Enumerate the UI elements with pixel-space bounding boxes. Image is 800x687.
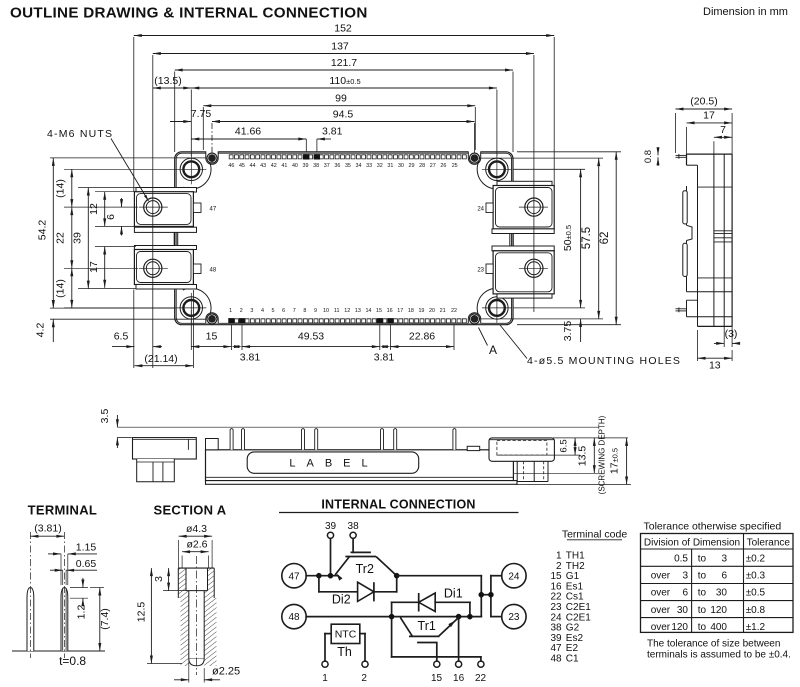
svg-text:12.5: 12.5: [136, 602, 148, 623]
svg-text:30: 30: [716, 588, 728, 599]
svg-text:22.86: 22.86: [409, 331, 435, 343]
terminal detail: dim 1.2: [70, 587, 88, 589]
front elevation: right terminal profile: [516, 461, 518, 481]
top view: dimension 17: [104, 247, 106, 288]
terminal detail: pin 2: [61, 588, 68, 651]
wire: 38 gate lead: [352, 538, 354, 552]
thermistor NTC box: [331, 624, 360, 643]
svg-text:6: 6: [682, 588, 688, 599]
svg-text:6: 6: [105, 214, 117, 220]
svg-text:48: 48: [550, 654, 562, 665]
svg-text:(SCREWING DEPTH): (SCREWING DEPTH): [598, 415, 607, 494]
schematic: terminal 23: [502, 604, 526, 628]
svg-text:Tr2: Tr2: [356, 562, 374, 576]
wire: 48 rail: [306, 616, 481, 618]
terminal detail: dim 0.65: [62, 570, 64, 585]
top view: extension lines (vertical): [133, 37, 135, 192]
top view: serrated pin combs: [229, 155, 466, 159]
terminal detail: base line: [12, 650, 105, 652]
svg-text:to: to: [698, 622, 707, 633]
section A: dim 12.5: [147, 663, 182, 665]
svg-text:Tolerance otherwise specified: Tolerance otherwise specified: [644, 521, 782, 533]
svg-text:LABEL: LABEL: [289, 457, 378, 469]
svg-text:(7.4): (7.4): [99, 608, 111, 630]
svg-text:to: to: [698, 588, 707, 599]
svg-text:57.5: 57.5: [581, 227, 593, 249]
front elevation: corner bumps: [206, 439, 219, 450]
node: junction 39/47: [328, 573, 333, 578]
svg-text:0.8: 0.8: [643, 150, 654, 163]
front elevation: body: [206, 450, 514, 481]
wire: collector rail to terminals 24/23: [397, 575, 482, 577]
top view: bottom dimension 49.53: [242, 346, 380, 348]
svg-text:7.75: 7.75: [191, 108, 212, 120]
svg-text:over: over: [651, 588, 671, 599]
top view: dimension 12: [104, 192, 106, 227]
top view: bottom dimension 3.81 (right): [380, 345, 388, 348]
schematic: terminal 39: [327, 532, 333, 538]
svg-text:2: 2: [361, 673, 367, 684]
svg-text:0.65: 0.65: [76, 558, 97, 570]
svg-text:±0.8: ±0.8: [746, 605, 766, 616]
top view: highlighted pins 39,38 (top) and 1,2,15,16 (bottom): [303, 154, 309, 159]
top view: right extension lines (horizontal): [513, 168, 585, 170]
svg-text:15: 15: [206, 331, 218, 343]
svg-text:30: 30: [677, 605, 689, 616]
svg-text:3.81: 3.81: [374, 352, 395, 364]
svg-text:39: 39: [325, 521, 337, 532]
svg-text:6: 6: [721, 571, 727, 582]
svg-text:41.66: 41.66: [235, 126, 261, 138]
wire: 47 to emitter node: [306, 575, 338, 577]
terminal detail: dim (7.4): [90, 587, 104, 589]
svg-text:Th: Th: [337, 645, 352, 659]
schematic: terminal 22: [478, 661, 484, 667]
svg-text:±0.5: ±0.5: [746, 588, 766, 599]
svg-text:ø2.25: ø2.25: [212, 666, 240, 678]
transistor Tr1 (IGBT): [409, 635, 439, 637]
top view: bottom dimension 6.5: [112, 346, 134, 348]
svg-text:400: 400: [710, 622, 727, 633]
svg-text:to: to: [698, 554, 707, 565]
svg-text:(21.14): (21.14): [144, 353, 177, 365]
top view: corner pin holes: [207, 153, 217, 163]
svg-text:23: 23: [477, 268, 484, 274]
svg-text:12: 12: [88, 203, 100, 215]
svg-text:7: 7: [720, 124, 726, 136]
top view: right terminal 23: [492, 229, 554, 234]
svg-text:94.5: 94.5: [333, 109, 354, 121]
terminal detail: pin 1: [27, 588, 34, 651]
top view: dimension 121.7: [175, 69, 513, 71]
svg-text:3.81: 3.81: [240, 352, 261, 364]
wire: 39 lead: [330, 538, 332, 575]
svg-text:over: over: [651, 622, 671, 633]
svg-text:Terminal code: Terminal code: [562, 529, 628, 541]
svg-text:Tr1: Tr1: [418, 619, 436, 633]
svg-text:24: 24: [477, 207, 484, 213]
top view: bottom dimension 3.81 (left): [231, 345, 239, 348]
schematic: terminal 1: [322, 661, 328, 667]
svg-text:17: 17: [703, 110, 715, 122]
svg-text:16: 16: [453, 673, 465, 684]
svg-text:48: 48: [288, 612, 300, 623]
node: Tr2 collector junction: [394, 573, 399, 578]
top view: corner pin hole notches: [206, 151, 219, 160]
svg-text:(13.5): (13.5): [154, 75, 181, 87]
svg-text:(3): (3): [725, 328, 738, 340]
front elevation: left terminal profile: [133, 438, 197, 459]
top view: dimension 99: [203, 105, 475, 107]
top view: bottom dimension (21.14): [134, 365, 193, 367]
svg-text:A: A: [489, 343, 497, 357]
svg-text:4-ø5.5 MOUNTING HOLES: 4-ø5.5 MOUNTING HOLES: [527, 355, 681, 367]
svg-text:3.5: 3.5: [99, 409, 111, 424]
node: junction at Di2 left: [316, 573, 321, 578]
node: output junctions: [479, 592, 484, 597]
svg-text:152: 152: [334, 23, 352, 35]
top view: left terminal 48: [134, 227, 196, 232]
svg-text:120: 120: [710, 605, 727, 616]
svg-text:±0.2: ±0.2: [746, 554, 766, 565]
svg-text:24: 24: [508, 571, 520, 582]
side view: top pin: [676, 154, 687, 156]
top view: dimension 4.2: [52, 319, 54, 342]
side view: body: [687, 153, 733, 155]
terminal detail: dim 1.15: [60, 554, 62, 585]
top view: dimension 3.75: [580, 319, 582, 342]
wire: pin 16 drop: [458, 617, 460, 662]
svg-text:ø2.6: ø2.6: [186, 538, 207, 550]
top view: dimension 152: [134, 35, 554, 37]
svg-text:47: 47: [288, 571, 300, 582]
svg-text:over: over: [651, 605, 671, 616]
svg-text:Di1: Di1: [444, 587, 463, 601]
svg-text:22: 22: [55, 232, 67, 244]
side view: dimension 13: [697, 330, 699, 361]
svg-text:3.81: 3.81: [322, 126, 343, 138]
svg-text:23: 23: [508, 612, 520, 623]
schematic: terminal 38: [350, 532, 356, 538]
svg-text:±1.2: ±1.2: [746, 622, 766, 633]
svg-text:6.5: 6.5: [559, 439, 570, 452]
top view: dimension 6: [121, 198, 123, 207]
svg-text:SECTION A: SECTION A: [153, 503, 226, 518]
transistor Tr2 (IGBT): [351, 551, 371, 553]
side view: dimension 7: [713, 141, 715, 154]
svg-text:to: to: [698, 571, 707, 582]
svg-text:Division of Dimension: Division of Dimension: [644, 538, 740, 549]
section A: dim dia 4.3: [178, 540, 180, 568]
svg-text:±0.3: ±0.3: [746, 571, 766, 582]
svg-text:47: 47: [210, 207, 217, 213]
top view: dimensions (14)/22/(14): [71, 169, 73, 308]
diode Di1: [391, 602, 393, 657]
svg-text:(3.81): (3.81): [34, 523, 61, 535]
top view: bottom dimension 15: [190, 310, 192, 350]
top view: dimension 39: [87, 188, 89, 289]
svg-text:INTERNAL CONNECTION: INTERNAL CONNECTION: [321, 498, 475, 512]
wire: pin 22 drop: [480, 657, 482, 661]
svg-text:NTC: NTC: [335, 628, 357, 640]
terminal detail: dim (3.81): [30, 535, 64, 537]
svg-text:3: 3: [721, 554, 727, 565]
svg-text:Tolerance: Tolerance: [747, 538, 791, 549]
side view: dimension (20.5): [675, 113, 677, 153]
svg-text:(20.5): (20.5): [690, 96, 717, 108]
top view: dimension 41.66 and 3.81 (top): [191, 138, 306, 140]
svg-text:TERMINAL: TERMINAL: [28, 503, 98, 518]
schematic: terminal 16: [456, 661, 462, 667]
svg-text:terminals is assumed to be ±0.: terminals is assumed to be ±0.4.: [647, 650, 791, 661]
svg-text:13: 13: [709, 360, 721, 372]
svg-text:48: 48: [210, 268, 217, 274]
svg-text:1.2: 1.2: [76, 605, 88, 620]
top view: dimension 57.5: [598, 158, 600, 319]
svg-text:0.5: 0.5: [674, 554, 688, 565]
top view: right terminal 24: [497, 181, 552, 185]
svg-text:50±0.5: 50±0.5: [562, 225, 574, 251]
schematic: terminal 47: [282, 564, 306, 588]
top view: dimension 110 +/-0.5 and (13.5): [191, 87, 497, 89]
svg-text:The tolerance of size between: The tolerance of size between: [647, 639, 780, 650]
side view: dimension 0.8: [657, 147, 659, 155]
node: rail junctions: [389, 614, 394, 619]
svg-text:54.2: 54.2: [37, 220, 49, 241]
svg-text:(14): (14): [55, 279, 67, 298]
schematic: terminal 24: [502, 564, 526, 588]
top view: dimension 137: [153, 53, 534, 55]
wire: Tr1 gate lead to pin 15: [436, 643, 438, 657]
svg-text:13.5: 13.5: [577, 446, 589, 467]
diode Di2: [318, 576, 320, 592]
side view: left case profile with terminal strips: [686, 186, 688, 225]
svg-text:4.2: 4.2: [35, 323, 47, 338]
front elevation: pin-top reference line and 3.5 dim: [117, 426, 599, 428]
svg-text:110±0.5: 110±0.5: [329, 75, 360, 87]
svg-text:120: 120: [671, 622, 688, 633]
section A: dim dia 2.6: [181, 556, 183, 569]
schematic: terminal 2: [362, 661, 368, 667]
schematic: terminal 15: [434, 661, 440, 667]
svg-text:39: 39: [72, 232, 84, 244]
svg-text:1.15: 1.15: [76, 542, 97, 554]
top view: dimension 50 +/-0.5: [580, 169, 582, 308]
svg-text:Dimension in mm: Dimension in mm: [703, 6, 788, 18]
svg-text:17: 17: [88, 261, 100, 273]
front elevation: right dimensions 6.5 / 13.5 / 17: [553, 437, 628, 439]
top view: bottom dimension 22.86: [390, 346, 454, 348]
svg-text:C1: C1: [566, 654, 579, 665]
svg-text:3: 3: [153, 576, 165, 582]
wire: auxiliary bottom bus: [392, 656, 481, 658]
top view: dimension 94.5 and 7.75: [212, 121, 475, 123]
svg-text:137: 137: [331, 41, 349, 53]
svg-text:6.5: 6.5: [114, 331, 129, 343]
svg-text:4-M6 NUTS: 4-M6 NUTS: [47, 128, 113, 140]
front elevation: LABEL plate: [247, 452, 419, 473]
wire: NTC leads: [325, 633, 331, 635]
svg-text:3: 3: [682, 571, 688, 582]
svg-text:22: 22: [475, 673, 487, 684]
top view: module outline: [175, 152, 513, 325]
svg-text:49.53: 49.53: [298, 331, 324, 343]
schematic: terminal 48: [282, 604, 306, 628]
section A: dim dia 2.25: [188, 660, 190, 683]
svg-text:99: 99: [335, 93, 347, 105]
top view: left reference planes: [50, 157, 206, 159]
svg-text:OUTLINE DRAWING & INTERNAL: OUTLINE DRAWING & INTERNAL CONNECTION: [10, 5, 368, 22]
side view: dimension 17: [686, 127, 688, 154]
svg-text:Di2: Di2: [332, 593, 351, 607]
svg-text:17±0.5: 17±0.5: [609, 448, 621, 474]
top view: mounting holes: [180, 158, 202, 180]
svg-text:(14): (14): [55, 179, 67, 198]
svg-text:over: over: [651, 571, 671, 582]
top view: left terminal 47: [136, 188, 197, 193]
side view: dimension (3): [723, 326, 725, 347]
svg-text:38: 38: [348, 521, 360, 532]
svg-text:3.75: 3.75: [562, 321, 574, 342]
svg-text:121.7: 121.7: [331, 57, 357, 69]
top view: dimension 54.2: [52, 158, 54, 308]
top view: corner bosses: [183, 161, 211, 189]
front elevation: pins: [230, 429, 233, 450]
svg-text:to: to: [698, 605, 707, 616]
svg-text:15: 15: [431, 673, 443, 684]
svg-text:62: 62: [599, 232, 611, 245]
svg-text:t=0.8: t=0.8: [59, 654, 86, 668]
svg-text:ø4.3: ø4.3: [186, 523, 207, 535]
side view: bottom pin and foot: [686, 300, 688, 317]
top view: dimension 62: [615, 152, 617, 325]
wire: pin 15 drop: [436, 657, 438, 661]
section A: dim 3: [163, 590, 186, 592]
svg-text:1: 1: [322, 673, 328, 684]
